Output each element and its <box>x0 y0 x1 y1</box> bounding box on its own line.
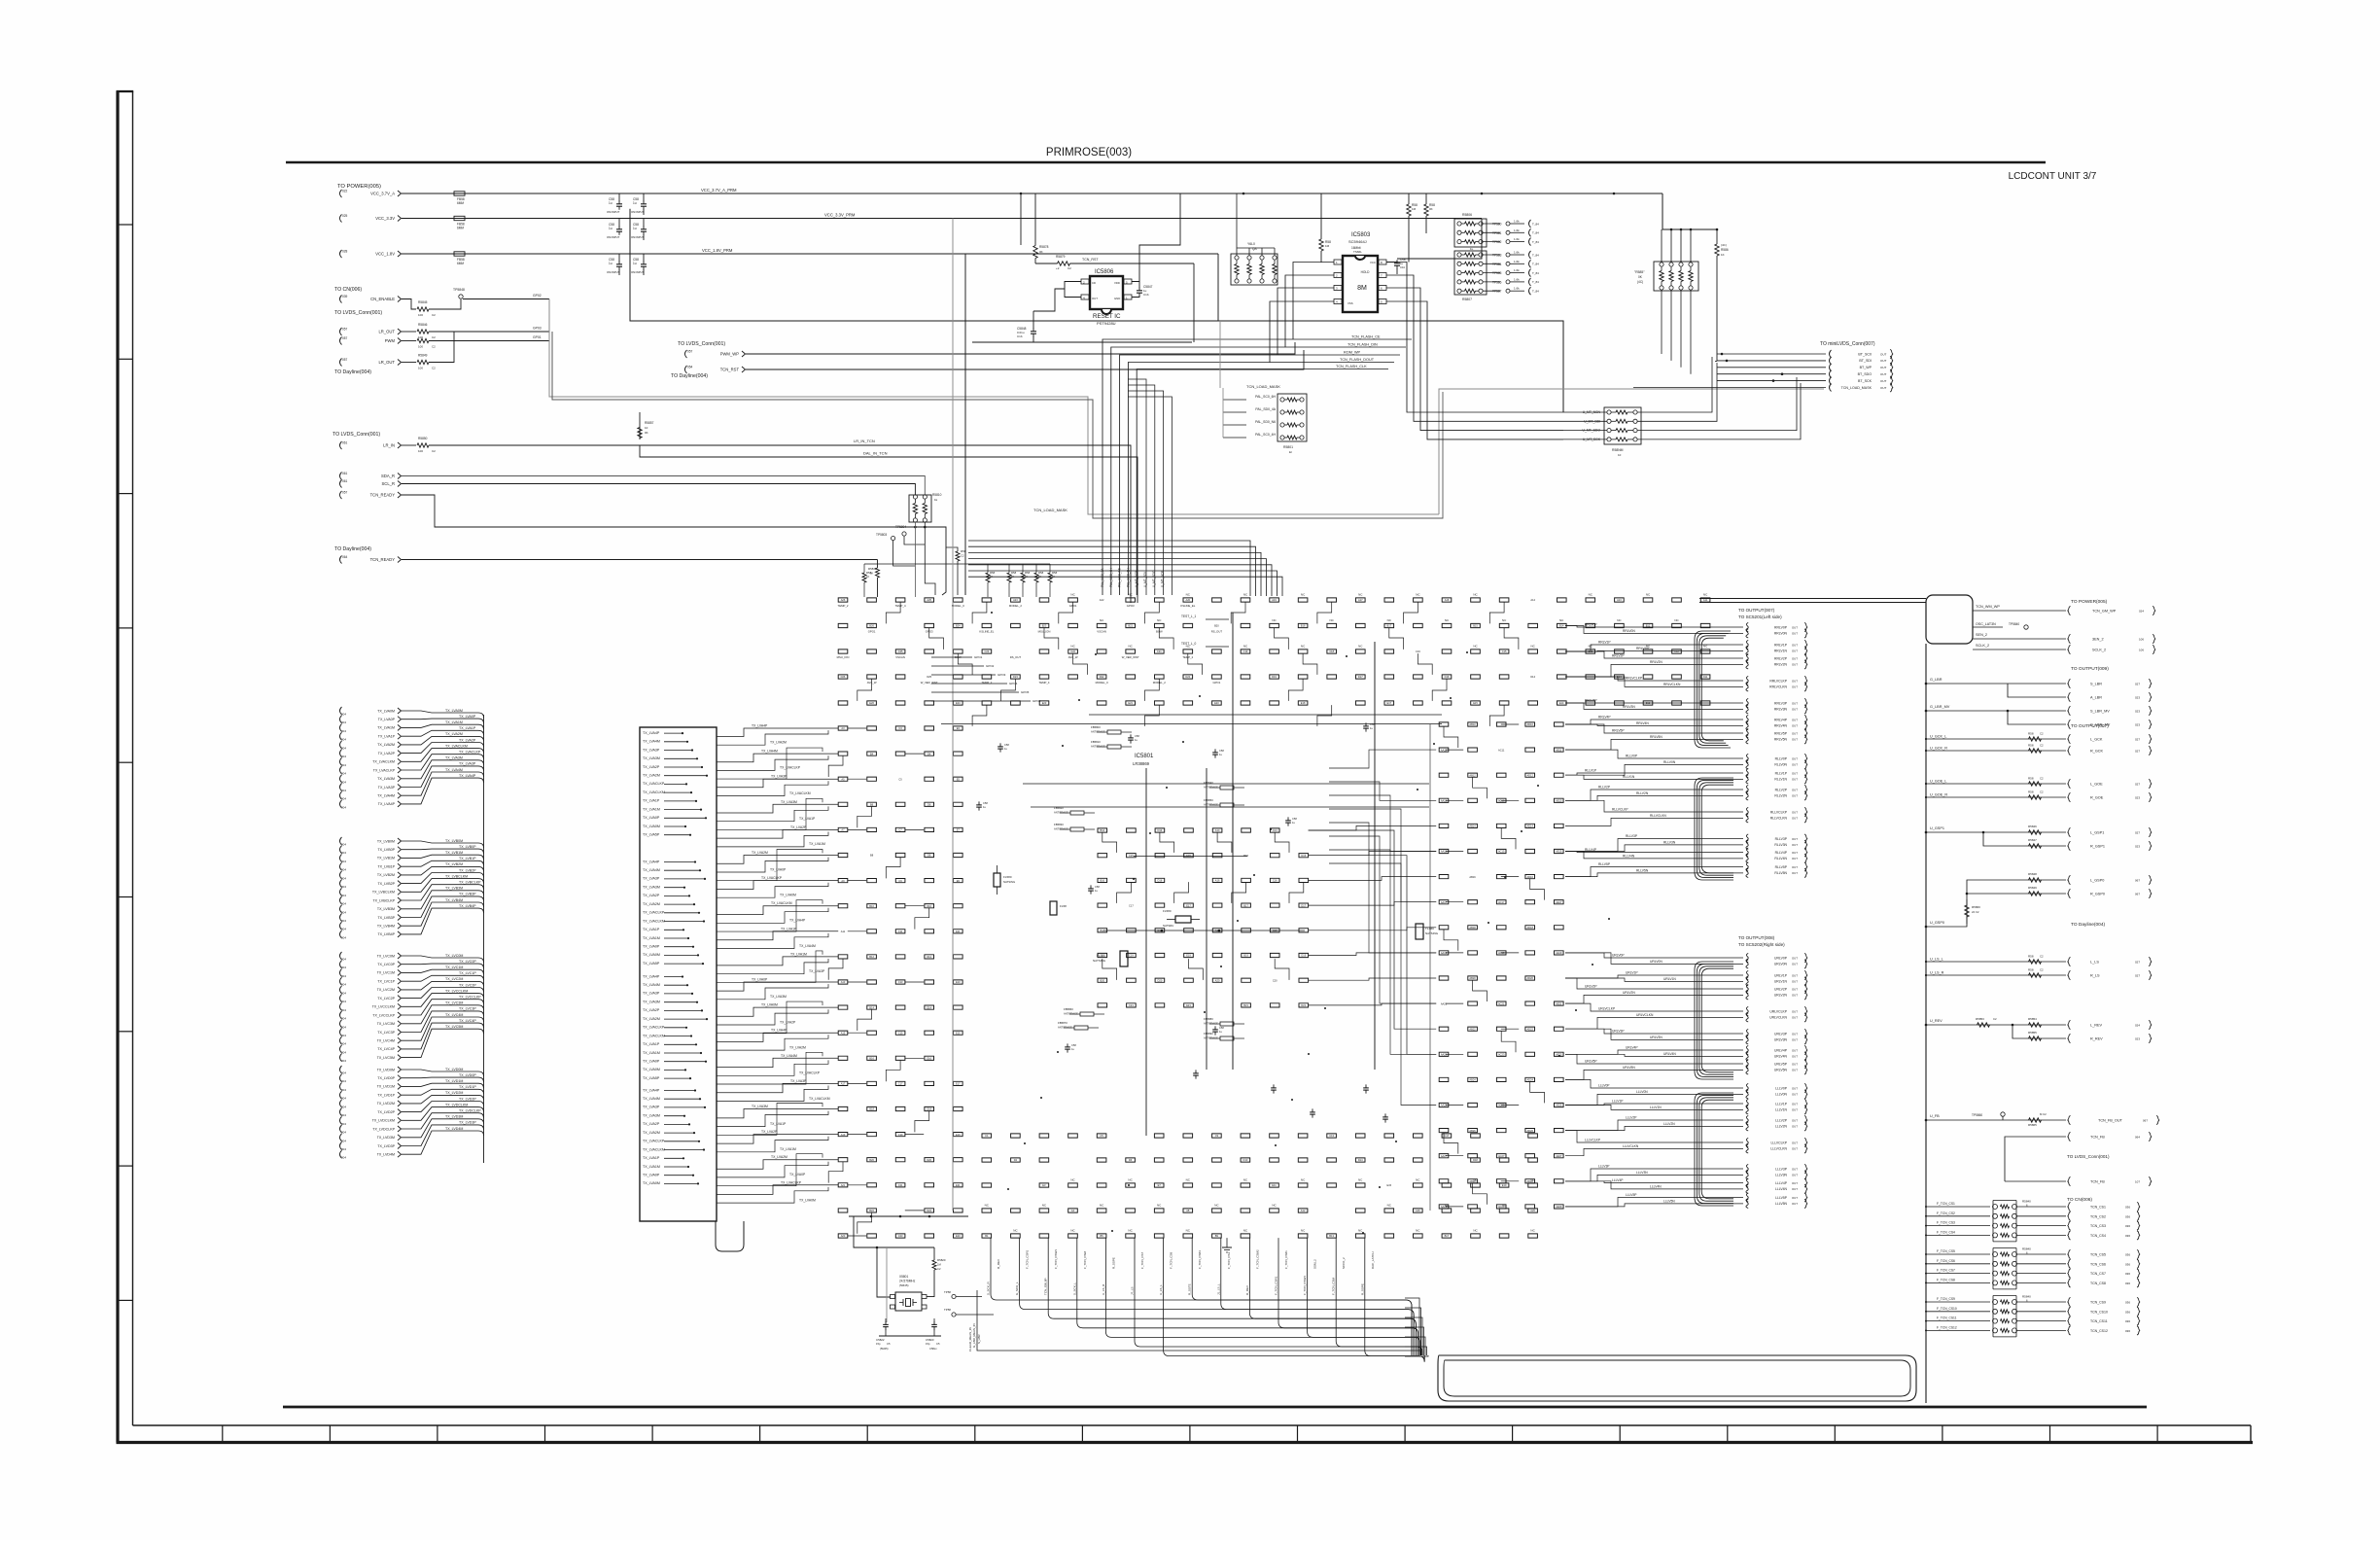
svg-text:TX_LVA1P: TX_LVA1P <box>378 735 396 739</box>
svg-text:C13: C13 <box>1329 1134 1334 1138</box>
svg-text:B5: B5 <box>1101 1234 1104 1238</box>
svg-text:TX_LVA0M: TX_LVA0M <box>643 1181 660 1185</box>
resistor R5847 on PWM <box>402 340 416 342</box>
svg-text:MODEL_0: MODEL_0 <box>952 604 965 608</box>
svg-text:BT_SDI: BT_SDI <box>1859 359 1872 363</box>
svg-text:T_84: T_84 <box>1532 263 1539 266</box>
svg-text:E19: E19 <box>1186 954 1191 958</box>
svg-text:TX_LVC2M: TX_LVC2M <box>377 988 395 992</box>
svg-text:FB5830: FB5830 <box>1054 823 1064 826</box>
svg-text:TCN_CS1: TCN_CS1 <box>2090 1206 2106 1210</box>
svg-text:064: 064 <box>2135 1136 2140 1140</box>
svg-text:URLV4N: URLV4N <box>1774 1055 1788 1059</box>
svg-text:OUT: OUT <box>1792 1069 1798 1072</box>
svg-text:LLLVCLKN: LLLVCLKN <box>1770 1147 1787 1151</box>
wire bundle nested loop upper <box>1695 631 1731 748</box>
wire reset output bus <box>972 341 1192 343</box>
svg-text:TX_LVD0M: TX_LVD0M <box>377 1068 395 1071</box>
svg-text:RLLVCLKP: RLLVCLKP <box>1770 810 1788 814</box>
svg-text:067: 067 <box>2135 893 2140 896</box>
svg-text:OUT: OUT <box>1792 1093 1798 1097</box>
svg-text:TX_LVDCLKP: TX_LVDCLKP <box>459 1109 481 1113</box>
left binding bar outer line <box>116 91 119 1443</box>
connector pin 064 TCN_READY <box>340 556 342 564</box>
svg-text:TX_LVA1P: TX_LVA1P <box>643 928 660 931</box>
connector pin 061 SCL_R <box>340 480 342 488</box>
svg-text:TX_LVC5M: TX_LVC5M <box>377 1056 395 1060</box>
wire LR_OUT to GP03 <box>429 331 549 333</box>
svg-text:ON/INPUT: ON/INPUT <box>631 235 645 239</box>
svg-text:D17: D17 <box>1358 675 1363 679</box>
svg-text:ROM_WP: ROM_WP <box>1344 351 1361 355</box>
svg-text:TX_LVA2M: TX_LVA2M <box>752 851 768 855</box>
svg-text:TX_LVA3P: TX_LVA3P <box>771 775 787 779</box>
svg-text:S_LBR_MV: S_LBR_MV <box>2090 710 2110 714</box>
svg-text:B14: B14 <box>1559 624 1564 628</box>
resistor network R5842 vertical <box>1634 262 1698 291</box>
svg-text:027: 027 <box>2135 750 2140 754</box>
svg-text:304: 304 <box>341 1113 346 1117</box>
wire SDRAM VCC <box>1397 245 1409 263</box>
svg-text:U_REV: U_REV <box>1930 1019 1942 1023</box>
svg-text:TCN_FB: TCN_FB <box>2090 1180 2105 1184</box>
svg-text:HOLD: HOLD <box>1361 270 1371 274</box>
wire TCN_RST <box>1070 263 1195 264</box>
svg-text:C2: C2 <box>1993 1017 1997 1021</box>
svg-text:RLLV2N: RLLV2N <box>1636 791 1649 795</box>
svg-text:TX_LVBCLKM: TX_LVBCLKM <box>372 891 395 895</box>
svg-text:TX_LVACLKM: TX_LVACLKM <box>643 790 665 794</box>
svg-text:TX_LVA0P: TX_LVA0P <box>789 1173 806 1176</box>
svg-text:URLVCLKN: URLVCLKN <box>1769 1016 1787 1020</box>
svg-text:TX_LVB3M: TX_LVB3M <box>377 907 395 911</box>
svg-text:B10: B10 <box>869 904 874 908</box>
wire crystal right pins <box>927 1296 934 1298</box>
svg-text:RRLV0P: RRLV0P <box>1774 625 1788 629</box>
svg-text:FL58: FL58 <box>1060 904 1067 908</box>
svg-text:TX_LVA3P: TX_LVA3P <box>643 1106 660 1109</box>
svg-text:C16: C16 <box>1416 650 1420 653</box>
svg-text:304: 304 <box>341 729 346 733</box>
svg-text:D2: D2 <box>1014 1158 1018 1162</box>
svg-text:R5806: R5806 <box>1462 213 1472 217</box>
svg-text:TCN_CS10: TCN_CS10 <box>2090 1310 2108 1314</box>
svg-text:D6: D6 <box>927 803 931 807</box>
svg-text:R_REV: R_REV <box>1245 1285 1249 1295</box>
svg-text:R_GCK: R_GCK <box>2090 750 2104 754</box>
svg-text:AD24: AD24 <box>1526 1078 1533 1082</box>
svg-text:F_TCN_CSM2: F_TCN_CSM2 <box>1255 1249 1259 1269</box>
svg-text:FB5850: FB5850 <box>1204 798 1213 802</box>
caps beside middle block <box>976 722 1375 1053</box>
svg-text:TX_LVA4P: TX_LVA4P <box>643 860 660 863</box>
svg-text:URLV1P: URLV1P <box>1774 973 1788 977</box>
svg-text:AA11: AA11 <box>1441 748 1448 752</box>
svg-text:C5: C5 <box>936 1342 940 1346</box>
svg-text:AE21: AE21 <box>1556 1001 1562 1005</box>
svg-text:304: 304 <box>341 797 346 801</box>
IC5803 right pins <box>1379 260 1386 304</box>
fuse FB58 VCC_1.8V <box>454 252 465 256</box>
svg-text:R5865: R5865 <box>2028 1123 2037 1127</box>
svg-text:TX_LVACLKP: TX_LVACLKP <box>780 766 801 770</box>
svg-text:U_MT_SCK: U_MT_SCK <box>1161 570 1165 587</box>
svg-text:1.6k: 1.6k <box>1514 268 1520 272</box>
svg-text:OUT: OUT <box>1792 1108 1798 1112</box>
wire BT_SDI to connector <box>1717 360 1826 362</box>
svg-text:057: 057 <box>342 491 348 495</box>
svg-text:TO OUTPUT(007): TO OUTPUT(007) <box>2071 723 2109 729</box>
svg-text:TX_LVC4P: TX_LVC4P <box>459 1019 476 1023</box>
svg-text:TX_LVA4P: TX_LVA4P <box>378 802 396 806</box>
svg-text:TX_LVB2P: TX_LVB2P <box>377 882 395 886</box>
svg-text:TX_LVA2M: TX_LVA2M <box>445 732 463 736</box>
svg-text:C5: C5 <box>898 777 902 781</box>
svg-text:TX_LVA4P: TX_LVA4P <box>752 724 768 728</box>
svg-text:TX_LVB2M: TX_LVB2M <box>445 862 463 866</box>
svg-text:LLLV0N: LLLV0N <box>1775 1093 1788 1097</box>
resistor R5849 on LR_OUT b <box>402 362 416 364</box>
wires SDRAM right pins to U_MT rows <box>1386 263 1563 439</box>
svg-text:D12: D12 <box>927 955 931 959</box>
svg-text:RESET IC: RESET IC <box>1093 313 1121 320</box>
svg-text:TX_LVCCLKM: TX_LVCCLKM <box>372 1005 395 1009</box>
svg-text:OUT: OUT <box>1792 963 1798 966</box>
svg-text:(4C): (4C) <box>1637 280 1643 284</box>
svg-text:C58: C58 <box>1219 1026 1224 1030</box>
svg-text:OUT: OUT <box>1792 731 1798 735</box>
svg-text:D22: D22 <box>927 1209 931 1212</box>
svg-text:AE29: AE29 <box>1556 1205 1562 1209</box>
svg-text:AE27: AE27 <box>1556 1154 1562 1158</box>
svg-text:TX_LVA4M: TX_LVA4M <box>799 944 816 948</box>
svg-text:TCN_FB_OUT: TCN_FB_OUT <box>2098 1119 2123 1123</box>
svg-text:TX_LVA2P: TX_LVA2P <box>761 1130 778 1134</box>
svg-text:C1b: C1b <box>1143 293 1149 297</box>
svg-text:C58: C58 <box>1004 743 1009 747</box>
svg-text:RLLV1N: RLLV1N <box>1623 775 1635 779</box>
svg-text:R_REV: R_REV <box>997 1259 1000 1269</box>
svg-text:TCN_CS12: TCN_CS12 <box>2090 1329 2108 1333</box>
svg-text:C11: C11 <box>898 930 903 933</box>
svg-text:URLV4P: URLV4P <box>1774 1048 1788 1052</box>
svg-text:LLLV5N: LLLV5N <box>1775 1202 1788 1206</box>
svg-text:B14: B14 <box>869 1005 874 1009</box>
svg-text:TX_LVB1P: TX_LVB1P <box>459 857 476 860</box>
ball pin name micro labels bottom band <box>985 1134 1535 1238</box>
svg-text:R_SSPE: R_SSPE <box>1111 1257 1115 1269</box>
svg-text:TP5804: TP5804 <box>895 525 906 529</box>
svg-text:F_TCN_CS2: F_TCN_CS2 <box>1937 1211 1955 1215</box>
svg-text:URLV2N: URLV2N <box>1774 994 1788 998</box>
svg-text:C22: C22 <box>1070 650 1075 653</box>
svg-text:304: 304 <box>341 1059 346 1063</box>
svg-text:F_TCN_CS84: F_TCN_CS84 <box>1198 1250 1202 1269</box>
svg-text:TCN_CS3: TCN_CS3 <box>2090 1224 2106 1228</box>
svg-text:Y6L0: Y6L0 <box>1247 242 1255 246</box>
svg-text:TX_LVA4M: TX_LVA4M <box>643 983 660 987</box>
svg-text:C3: C3 <box>898 726 902 730</box>
svg-text:RRLV2P: RRLV2P <box>1612 654 1625 658</box>
svg-text:RRLV4P: RRLV4P <box>1598 716 1611 720</box>
svg-text:RLLV2P: RLLV2P <box>1775 788 1788 791</box>
svg-text:B17: B17 <box>1445 1234 1450 1238</box>
svg-text:OUT: OUT <box>1792 851 1798 855</box>
svg-text:C13: C13 <box>898 980 903 984</box>
svg-text:TX_LVA1M: TX_LVA1M <box>643 1051 660 1055</box>
svg-text:E14: E14 <box>1559 701 1564 705</box>
svg-text:C58: C58 <box>1219 749 1224 753</box>
svg-text:L_GSP0: L_GSP0 <box>2090 879 2104 883</box>
svg-text:D18: D18 <box>1473 1158 1478 1162</box>
elbow links left band columns <box>828 755 929 1234</box>
connector pin 057 TCN_READY <box>340 491 342 499</box>
filter FL5802 NATSING <box>1416 924 1423 939</box>
svg-text:PAL_SD0_4A: PAL_SD0_4A <box>1255 407 1276 411</box>
svg-text:F_TCN_CSM: F_TCN_CSM <box>1083 1250 1087 1269</box>
svg-text:U_FB: U_FB <box>1930 1114 1940 1118</box>
resistor R5846 on LR_OUT <box>402 331 416 333</box>
svg-text:304: 304 <box>341 1105 346 1108</box>
svg-text:F_TCN_CS6: F_TCN_CS6 <box>1937 1259 1955 1263</box>
TCN_CS output circle rows <box>1925 1200 2140 1337</box>
svg-text:LR_OUT: LR_OUT <box>378 360 395 365</box>
svg-text:TX_LVB3P: TX_LVB3P <box>459 893 476 896</box>
svg-text:FB5860: FB5860 <box>1064 1007 1073 1011</box>
svg-text:304: 304 <box>341 885 346 889</box>
svg-text:TX_LVA3M: TX_LVA3M <box>643 1114 660 1118</box>
svg-text:OUT: OUT <box>1792 1048 1798 1052</box>
svg-text:304: 304 <box>341 958 346 962</box>
IC5801 left pin bank rows <box>640 729 708 1185</box>
svg-text:RLLV2N: RLLV2N <box>1774 794 1787 798</box>
svg-text:RRLV0P: RRLV0P <box>1585 623 1597 627</box>
svg-text:LLLV3P: LLLV3P <box>1775 1167 1788 1171</box>
svg-text:TX_LVA0P: TX_LVA0P <box>643 1060 660 1064</box>
svg-text:C15: C15 <box>898 1031 903 1035</box>
svg-text:TX_LVA0M: TX_LVA0M <box>799 1198 816 1202</box>
svg-text:057: 057 <box>687 350 693 354</box>
svg-text:TX_LVACLKP: TX_LVACLKP <box>643 782 665 786</box>
svg-text:VSS: VSS <box>1347 301 1353 305</box>
svg-text:VCC: VCC <box>1370 261 1376 264</box>
wire top of pullups <box>864 563 1050 565</box>
svg-text:TX_LVACLKP: TX_LVACLKP <box>799 1071 821 1075</box>
svg-text:106: 106 <box>2139 649 2144 652</box>
svg-text:C58xx: C58xx <box>929 1347 937 1351</box>
svg-text:TX_LVA1P: TX_LVA1P <box>459 726 476 730</box>
svg-text:URLV5N: URLV5N <box>1774 1069 1788 1072</box>
upper output chevron pair rows <box>1746 622 1807 877</box>
svg-text:TX_LVA1M: TX_LVA1M <box>780 1147 796 1151</box>
svg-text:OUT: OUT <box>1792 1009 1798 1013</box>
fuse FB58 VCC_3.7V_A <box>454 192 465 195</box>
svg-text:TCN_GBL8P: TCN_GBL8P <box>1044 1278 1048 1295</box>
svg-text:VCC_3.7V_A: VCC_3.7V_A <box>370 192 395 196</box>
svg-text:RRLV1N: RRLV1N <box>1774 650 1788 653</box>
svg-text:304: 304 <box>341 805 346 809</box>
svg-text:C2: C2 <box>1067 266 1071 270</box>
svg-text:TX_LVA1M: TX_LVA1M <box>643 936 660 940</box>
svg-text:ANTIFRAGE: ANTIFRAGE <box>1091 730 1105 734</box>
svg-text:VSCAN: VSCAN <box>1097 629 1106 633</box>
svg-text:027: 027 <box>2135 831 2140 835</box>
svg-text:R5857: R5857 <box>645 421 654 425</box>
svg-text:BT_SC0: BT_SC0 <box>1858 352 1872 356</box>
svg-text:TP584: TP584 <box>1492 263 1502 266</box>
svg-text:1K: 1K <box>1025 575 1028 579</box>
svg-text:C2: C2 <box>432 367 436 370</box>
svg-text:023: 023 <box>2135 723 2140 727</box>
svg-text:R5810: R5810 <box>932 493 942 497</box>
filter FL5804 left <box>994 873 1000 887</box>
svg-text:+2: +2 <box>1056 266 1060 270</box>
svg-text:RLLV4P: RLLV4P <box>1585 848 1597 852</box>
svg-text:ANTIFRAGE: ANTIFRAGE <box>1091 745 1105 749</box>
svg-text:C1b: C1b <box>1400 265 1406 269</box>
svg-text:TX_LVD3P: TX_LVD3P <box>459 1121 476 1125</box>
svg-text:LLLV5P: LLLV5P <box>1775 1196 1788 1200</box>
wire bundle nested loop lower1 <box>1695 962 1733 1079</box>
svg-text:D4: D4 <box>927 752 931 755</box>
connector pin 061 LR_IN <box>340 441 342 449</box>
svg-text:TX_LVA0P: TX_LVA0P <box>643 816 660 820</box>
svg-text:PWM: PWM <box>385 338 396 343</box>
svg-text:TO LVDS_Conn(001): TO LVDS_Conn(001) <box>334 310 382 316</box>
svg-text:RRLV2N: RRLV2N <box>1650 660 1662 664</box>
svg-text:B13: B13 <box>1329 1234 1334 1238</box>
resistor R5811 below TCN_READY wire <box>876 568 880 578</box>
svg-text:OUT: OUT <box>1792 625 1798 629</box>
svg-text:C2: C2 <box>2040 955 2044 959</box>
svg-text:A14: A14 <box>1530 598 1535 602</box>
svg-text:TX_LVA3P: TX_LVA3P <box>643 877 660 881</box>
svg-text:TX_LVC5M: TX_LVC5M <box>445 1025 463 1029</box>
svg-text:URLV3P: URLV3P <box>1612 1030 1625 1034</box>
svg-text:F_TCN_CS7: F_TCN_CS7 <box>1140 1251 1144 1269</box>
svg-text:B18: B18 <box>1100 929 1104 932</box>
svg-text:TX_LVC1M: TX_LVC1M <box>377 971 395 975</box>
svg-text:E17: E17 <box>1186 903 1191 907</box>
svg-text:FB5870: FB5870 <box>1058 1021 1067 1025</box>
svg-text:304: 304 <box>341 1017 346 1021</box>
svg-text:AD18: AD18 <box>1526 926 1533 930</box>
svg-text:GPO4: GPO4 <box>1009 682 1018 685</box>
svg-text:TCN_CS9: TCN_CS9 <box>2090 1301 2106 1305</box>
svg-text:T_84: T_84 <box>1532 240 1539 244</box>
svg-text:D21: D21 <box>1301 1003 1306 1007</box>
svg-text:TX_LVA0P: TX_LVA0P <box>459 715 476 719</box>
svg-text:NATSING: NATSING <box>1425 931 1439 935</box>
svg-text:TX_LVA3M: TX_LVA3M <box>643 886 660 890</box>
svg-text:S_LBR: S_LBR <box>977 1334 981 1344</box>
capacitor C5847 <box>1137 290 1142 292</box>
svg-text:1K: 1K <box>990 575 993 579</box>
left signal list column A <box>340 707 484 1160</box>
svg-text:TX_LVB0P: TX_LVB0P <box>459 845 476 849</box>
svg-text:304: 304 <box>341 974 346 978</box>
svg-text:036: 036 <box>2125 1310 2130 1314</box>
svg-text:URLV4N: URLV4N <box>1663 1052 1676 1056</box>
svg-text:1K: 1K <box>1011 575 1014 579</box>
svg-text:C9: C9 <box>1215 1134 1219 1138</box>
svg-text:VSCAN: VSCAN <box>895 655 905 659</box>
svg-text:025: 025 <box>342 214 348 218</box>
nested elbow bundle into grid top <box>968 541 1282 596</box>
bottom grid drop bundle <box>987 1238 1425 1362</box>
svg-text:TCN_WM_WP: TCN_WM_WP <box>1976 605 2000 609</box>
wire bus under bottom left ball row <box>849 1215 968 1217</box>
svg-text:FB5800: FB5800 <box>1091 725 1101 729</box>
junction dots mini connector <box>1772 379 1775 382</box>
svg-text:304: 304 <box>341 1088 346 1092</box>
svg-text:C12: C12 <box>1674 650 1679 653</box>
svg-text:PAL_SC0_4H: PAL_SC0_4H <box>1255 433 1276 437</box>
svg-text:D11: D11 <box>1703 675 1708 679</box>
svg-text:304: 304 <box>341 772 346 776</box>
IC5801 middle ball block <box>1098 828 1309 1007</box>
svg-text:TS66L: TS66L <box>1353 250 1362 254</box>
svg-text:FB5810: FB5810 <box>1091 740 1101 744</box>
svg-text:ANTIFRAGE: ANTIFRAGE <box>1204 1036 1218 1040</box>
svg-text:TCN_CS8: TCN_CS8 <box>2090 1282 2106 1285</box>
svg-text:LR_IN: LR_IN <box>383 443 395 448</box>
svg-text:304: 304 <box>341 1097 346 1101</box>
svg-text:TP587: TP587 <box>1492 290 1502 294</box>
svg-text:C19: C19 <box>898 1133 903 1137</box>
svg-text:E26: E26 <box>869 701 874 705</box>
svg-text:OUT: OUT <box>1792 1141 1798 1144</box>
svg-text:RLLV5P: RLLV5P <box>1598 862 1611 866</box>
svg-text:GPO2: GPO2 <box>986 664 995 668</box>
svg-text:URLV1N: URLV1N <box>1663 977 1676 981</box>
svg-text:TO LVDS_Conn(001): TO LVDS_Conn(001) <box>332 432 380 438</box>
svg-text:TEST_L_0: TEST_L_0 <box>1181 642 1196 646</box>
svg-text:OUT: OUT <box>1792 1174 1798 1177</box>
svg-text:TX_LVB0M: TX_LVB0M <box>377 839 395 843</box>
svg-text:BT_WP: BT_WP <box>1860 366 1872 369</box>
svg-text:OUT: OUT <box>1792 663 1798 667</box>
decoupling capacitor bank row1 <box>607 193 647 214</box>
svg-text:AB22: AB22 <box>1469 1027 1476 1031</box>
svg-text:A13: A13 <box>841 980 846 984</box>
svg-text:6MM: 6MM <box>457 201 464 205</box>
svg-text:R58: R58 <box>866 571 872 575</box>
svg-text:A22: A22 <box>1100 598 1104 602</box>
svg-text:MODEL_0: MODEL_0 <box>1096 681 1109 685</box>
svg-text:U_MT_SDO: U_MT_SDO <box>1152 570 1156 587</box>
wire crystal left feed <box>877 1247 891 1297</box>
svg-text:B23: B23 <box>1042 624 1047 628</box>
svg-text:OUT: OUT <box>1792 973 1798 977</box>
svg-text:AC23: AC23 <box>1498 1053 1505 1057</box>
svg-text:C58: C58 <box>1135 734 1139 738</box>
capacitor cluster bottom mid grid <box>1193 1070 1388 1122</box>
svg-text:F_TCN_CSM: F_TCN_CSM <box>1332 1277 1336 1295</box>
svg-text:C2: C2 <box>961 554 964 558</box>
svg-text:D25: D25 <box>927 675 931 679</box>
svg-text:DAL_IN_TCN: DAL_IN_TCN <box>863 451 888 456</box>
svg-text:R5850: R5850 <box>418 437 428 440</box>
svg-text:RRLVCLKP: RRLVCLKP <box>1769 679 1787 683</box>
connector pin 039 CN_ENABLE <box>340 296 342 303</box>
svg-text:R58: R58 <box>1025 571 1031 575</box>
svg-text:TX_LVC4M: TX_LVC4M <box>377 1039 395 1043</box>
svg-text:100: 100 <box>418 313 423 317</box>
svg-text:ON/INPUT: ON/INPUT <box>607 235 620 239</box>
svg-text:1k: 1k <box>934 498 938 502</box>
svg-text:8M: 8M <box>1357 285 1367 292</box>
